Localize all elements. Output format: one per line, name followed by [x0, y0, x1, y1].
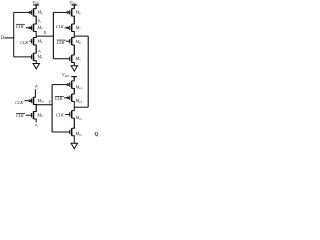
transistor M11 (NMOS, gate Y): [70, 118, 82, 143]
transistor M12 (NMOS, gate CLK): [65, 107, 82, 128]
transistor M2 (NMOS, gate CLK): [29, 36, 43, 53]
svg-text:X: X: [43, 30, 47, 35]
transistor M14 (PMOS, gate Y): [67, 77, 82, 94]
power VDD (left chain): [32, 0, 39, 9]
svg-text:CLK: CLK: [56, 24, 64, 29]
wire D bus to M1 gate: [14, 56, 32, 58]
clock label CLKbar for M8: [57, 40, 66, 45]
transistor M6 (PMOS, gate X): [67, 5, 81, 24]
transistor M9 (NMOS, gate CLKbar): [26, 105, 43, 123]
wire D input: [4, 37, 14, 39]
wire output node Q (bottom): [74, 106, 88, 108]
svg-text:CLK: CLK: [56, 112, 64, 117]
clock label CLKbar for M9: [16, 113, 25, 118]
transistor M13 (PMOS, gate CLKbar): [64, 88, 82, 107]
transistor M1 (NMOS, gate D): [32, 45, 43, 63]
wire D bus to M4 gate: [14, 11, 29, 13]
wire Y bus to M11 gate: [52, 131, 70, 133]
transistor M5 (NMOS, gate X): [70, 45, 81, 66]
transistor M8 (NMOS, gate CLKbar): [66, 36, 81, 55]
wire X bus to M6 gate: [53, 11, 66, 13]
transistor M3 (PMOS, gate CLKbar): [26, 16, 43, 36]
ground (left chain): [33, 64, 39, 69]
svg-text:D: D: [0, 36, 5, 41]
wire Q bus vertical: [87, 36, 89, 107]
svg-text:CLK: CLK: [55, 96, 63, 101]
wire Y bus to M14 gate: [52, 84, 67, 86]
power VDD (right bottom chain): [62, 72, 77, 80]
wire node X to X bus: [36, 35, 53, 37]
wire X bus to M5 gate: [53, 58, 69, 60]
clock label CLKbar for M13: [55, 96, 64, 101]
wire node Y to Y bus: [36, 104, 52, 106]
svg-text:CLK: CLK: [20, 40, 28, 45]
wire X bus vertical: [52, 12, 54, 58]
transistor M10 (PMOS, gate CLK): [24, 97, 44, 112]
clock label CLKbar for M3: [16, 24, 25, 29]
wire Y bus vertical: [51, 85, 53, 132]
wire output node to Q bus (top): [74, 35, 88, 37]
power VDD (right top chain): [70, 0, 78, 9]
svg-text:CLK: CLK: [16, 24, 24, 29]
svg-text:Q: Q: [95, 131, 99, 137]
ground (right top chain): [71, 66, 77, 71]
ground (right bottom chain): [71, 143, 77, 148]
svg-text:CLK: CLK: [57, 40, 65, 45]
svg-text:CLK: CLK: [15, 100, 23, 105]
transistor M7 (PMOS, gate CLK): [65, 16, 82, 36]
node P1 stub (bottom-left pair): [34, 85, 39, 97]
wire D bus vertical: [13, 12, 15, 57]
svg-text:CLK: CLK: [16, 113, 24, 118]
transistor M4 (PMOS, gate D): [29, 5, 43, 24]
